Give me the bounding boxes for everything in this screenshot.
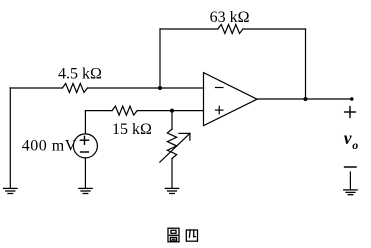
wire source top	[84, 111, 86, 134]
op-amp U1	[204, 73, 258, 126]
svg-text:4.5 kΩ: 4.5 kΩ	[58, 66, 102, 83]
wire potentiometer to ground	[171, 159, 173, 188]
resistor Rf 63 kOhm	[218, 25, 243, 34]
resistor R1 4.5 kOhm	[62, 84, 87, 93]
node output junction	[304, 97, 308, 101]
wire plus input left segment	[85, 110, 112, 112]
label figure four (CJK drawn)	[168, 228, 179, 242]
label plus polarity	[345, 107, 356, 118]
voltage source VS 400 mV	[73, 134, 97, 158]
svg-text:400 mV: 400 mV	[22, 138, 77, 155]
wire left vertical to ground	[9, 88, 11, 188]
ground left	[4, 188, 17, 193]
wire feedback top horizontal	[160, 28, 218, 30]
wire inverting input left segment	[10, 87, 62, 89]
ground potentiometer	[165, 188, 178, 193]
wire junction to potentiometer	[171, 111, 173, 130]
potentiometer arrow	[160, 133, 190, 162]
resistor R2 15 kOhm	[112, 106, 137, 115]
label minus polarity	[345, 166, 356, 168]
svg-text:63 kΩ: 63 kΩ	[210, 9, 250, 26]
wire source bottom	[84, 158, 86, 188]
wire feedback right vertical	[305, 29, 307, 99]
ground source	[79, 188, 92, 193]
wire output	[257, 98, 352, 100]
wire inverting input right segment	[88, 87, 204, 89]
potentiometer RP zigzag	[167, 129, 176, 159]
svg-text:15 kΩ: 15 kΩ	[112, 121, 152, 138]
svg-text:o: o	[352, 138, 358, 152]
wire feedback left vertical	[159, 29, 161, 88]
node inverting input junction	[158, 86, 162, 90]
wire plus input right segment	[137, 110, 203, 112]
ground output	[349, 172, 351, 190]
node potentiometer junction	[170, 109, 174, 113]
svg-text:v: v	[344, 128, 352, 148]
node output terminal	[350, 97, 353, 100]
